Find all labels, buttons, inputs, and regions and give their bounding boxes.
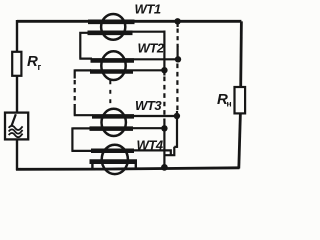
generator G (source box)	[5, 113, 28, 140]
transformer WT4 winding bar bottom	[90, 159, 138, 164]
junction node top rail / bus A	[174, 18, 180, 24]
wire WT1 top-right output to top rail	[135, 20, 179, 22]
generator wave 2	[9, 129, 23, 133]
transformer WT2 winding bar top	[91, 58, 135, 63]
wire WT1 bottom-right to bus B	[132, 31, 166, 76]
transformer WT2 winding bar bottom	[90, 69, 133, 73]
svg-text:н: н	[227, 99, 232, 109]
wire link WT3 bottom-left to WT4 top-left	[71, 127, 92, 150]
transformer WT3 winding bar bottom	[90, 126, 134, 131]
bus A lower segment	[176, 111, 178, 148]
transformer WT4 core	[102, 145, 128, 174]
svg-text:WT1: WT1	[135, 2, 161, 17]
resistor Rн	[235, 87, 246, 113]
wire link WT1 bottom-left to WT2 top-left	[79, 32, 92, 59]
wire left vertical (generator branch)	[16, 20, 18, 170]
svg-text:г: г	[38, 62, 42, 72]
wire WT4 top-right staircase to bus A	[134, 147, 178, 157]
svg-text:WT2: WT2	[138, 41, 165, 56]
bus B lower segment	[163, 119, 165, 169]
svg-text:WT3: WT3	[135, 98, 162, 113]
wire WT4 bottom bar stubs to bottom rail	[92, 162, 135, 169]
wire WT3 top-right to bus A	[134, 115, 178, 117]
wire right vertical (load branch)	[239, 21, 242, 168]
svg-text:WT4: WT4	[137, 137, 164, 152]
transformer WT3 winding bar top	[92, 114, 134, 119]
resistor Rг	[12, 52, 21, 76]
bus B middle segment (dashed)	[163, 77, 165, 120]
transformer WT1 core	[101, 14, 125, 40]
junction node bus A / WT2 top	[175, 56, 181, 62]
wire WT3 bottom-right to bus B	[133, 127, 166, 129]
generator wave 1	[9, 126, 23, 130]
transformer WT2 core	[101, 51, 125, 80]
transformer WT3 core	[102, 109, 126, 136]
junction node bus B / WT2 bottom	[161, 67, 167, 73]
dashed core-column continuation between WT2 and WT3	[109, 81, 111, 104]
transformer WT4 winding bar top	[91, 149, 134, 154]
bus A upper segment (dashed)	[177, 21, 179, 27]
wire WT2 top-right to bus A	[134, 58, 178, 60]
wire bottom horizontal	[16, 168, 240, 170]
transformer WT1 winding bar bottom	[88, 30, 133, 35]
generator diagonal stroke	[12, 114, 16, 125]
junction node bus B / WT3 bottom	[161, 125, 167, 131]
wire WT2 bottom-right to bus B	[133, 69, 166, 71]
svg-text:R: R	[27, 53, 38, 70]
junction node bus A / WT3 top	[174, 113, 180, 119]
wire top horizontal	[17, 20, 241, 23]
junction node bus B / bottom rail	[161, 164, 168, 171]
transformer WT1 winding bar top	[88, 19, 135, 24]
bus A middle segment (dashed)	[176, 64, 178, 112]
wire link WT2 bottom-left down (dashed continuation)	[75, 69, 91, 78]
generator wave 3	[9, 133, 23, 137]
